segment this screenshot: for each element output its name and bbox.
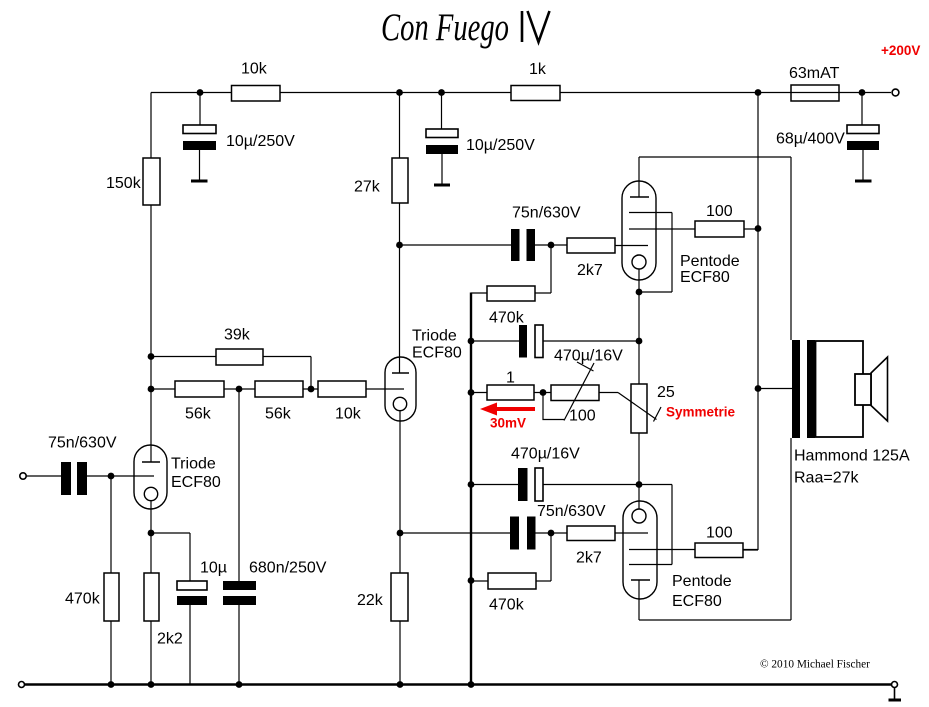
pentode V3 cathode circle bbox=[632, 255, 646, 269]
junction 1ohm / 100 pot bbox=[540, 389, 547, 396]
wire 470k lower link bbox=[471, 533, 551, 581]
pentode V3 anode bar bbox=[630, 196, 649, 198]
wire cathode chain lower bbox=[638, 433, 640, 509]
resistor 100 upper screen bbox=[695, 221, 744, 237]
wire lower g2 row bbox=[629, 549, 758, 551]
wire 27k branch upper bbox=[399, 93, 401, 159]
wire top B+ rail bbox=[151, 92, 891, 94]
junction splitter anode / coupling bbox=[396, 242, 403, 249]
junction upper pentode cathode bbox=[636, 289, 643, 296]
capacitor C4 75n/630V input bbox=[61, 462, 87, 495]
svg-text:10µ/250V: 10µ/250V bbox=[466, 137, 535, 154]
wire 2k7 to g1 upper pentode bbox=[615, 245, 648, 247]
triode V2 cathode circle bbox=[393, 397, 406, 410]
svg-text:Symmetrie: Symmetrie bbox=[666, 405, 736, 420]
svg-text:56k: 56k bbox=[185, 406, 212, 423]
svg-text:100: 100 bbox=[569, 408, 596, 425]
svg-text:75n/630V: 75n/630V bbox=[48, 435, 117, 452]
svg-text:1: 1 bbox=[506, 370, 515, 387]
terminal ground input bbox=[19, 682, 25, 688]
wire V1 cathode lead bbox=[150, 501, 152, 533]
junction rail / 2k2 bbox=[148, 681, 155, 688]
wire cap to grid V1 bbox=[87, 475, 154, 477]
wire cap C2 lead bbox=[441, 93, 444, 185]
wire splitter cathode to C8 bbox=[400, 532, 510, 534]
resistor 2k2 bbox=[144, 573, 159, 621]
capacitor C1 10u/250V bbox=[183, 125, 216, 183]
trimmer 25 wiper diagonal bbox=[618, 393, 661, 422]
junction rail / 470k input bbox=[108, 681, 115, 688]
wire 10u bypass branch bbox=[151, 533, 190, 685]
junction top rail / 68u bbox=[859, 89, 866, 96]
svg-text:25: 25 bbox=[657, 384, 675, 401]
resistor 10k top bbox=[232, 86, 281, 102]
capacitor C9 470u/16V upper bbox=[519, 325, 543, 358]
svg-text:Con Fuego: Con Fuego bbox=[381, 6, 509, 49]
svg-text:2k2: 2k2 bbox=[157, 631, 183, 648]
wire 22k branch bbox=[399, 533, 401, 685]
junction 39k tap bbox=[148, 353, 155, 360]
svg-text:39k: 39k bbox=[224, 327, 251, 344]
svg-text:ECF80: ECF80 bbox=[412, 345, 462, 362]
terminal B+ output bbox=[892, 89, 899, 96]
svg-text:ECF80: ECF80 bbox=[672, 593, 722, 610]
capacitor C2 10u/250V bbox=[426, 129, 458, 187]
svg-text:75n/630V: 75n/630V bbox=[512, 205, 581, 222]
svg-text:1k: 1k bbox=[529, 61, 547, 78]
fuse 63mAT bbox=[791, 85, 839, 101]
resistor 56k second bbox=[255, 381, 303, 397]
resistor 22k bbox=[391, 573, 408, 621]
wire lower 470u row bbox=[471, 484, 639, 486]
wire 2k7 to g1 lower pentode bbox=[615, 532, 648, 534]
resistor 2k7 upper bbox=[567, 238, 615, 253]
resistor 1k top bbox=[511, 86, 560, 101]
wire 56k row bbox=[151, 388, 404, 390]
wire upper anode to transformer bbox=[639, 157, 791, 340]
resistor 100 lower screen bbox=[695, 543, 743, 558]
svg-text:2k7: 2k7 bbox=[577, 262, 603, 279]
svg-text:63mAT: 63mAT bbox=[789, 65, 840, 82]
junction top rail / 27k bbox=[396, 89, 403, 96]
potentiometer 100 wiper arm bbox=[543, 362, 594, 421]
svg-text:10k: 10k bbox=[335, 406, 362, 423]
pentode V4 envelope bbox=[623, 501, 657, 599]
wire splitter anode to C7 bbox=[400, 244, 512, 246]
svg-text:+200V: +200V bbox=[881, 43, 920, 58]
wire B+ column bbox=[743, 93, 758, 551]
junction rail / bias bus bbox=[468, 681, 475, 688]
wire input to cap bbox=[26, 475, 61, 477]
wire upper g3 tie bbox=[629, 213, 672, 293]
junction lower 470u / trimmer bbox=[636, 481, 643, 488]
wire C7 to 2k7 upper bbox=[535, 244, 567, 246]
wire lower anode to transformer bbox=[639, 438, 791, 620]
wire upper anode lead bbox=[638, 157, 640, 197]
svg-text:Triode: Triode bbox=[171, 456, 216, 473]
junction 56k tap bbox=[148, 386, 155, 393]
wire 68u branch bbox=[862, 93, 863, 181]
svg-text:470µ/16V: 470µ/16V bbox=[554, 348, 623, 365]
svg-text:68µ/400V: 68µ/400V bbox=[776, 131, 845, 148]
junction V1 cathode node bbox=[148, 530, 155, 537]
pentode V4 anode bar bbox=[631, 579, 650, 581]
svg-text:10µ: 10µ bbox=[200, 560, 227, 577]
junction bias bus / 470k lower bbox=[468, 577, 475, 584]
svg-text:2k7: 2k7 bbox=[576, 550, 602, 567]
wire cap C1 lead bbox=[199, 93, 202, 181]
resistor 39k bbox=[216, 349, 263, 365]
junction B+ / 100 upper bbox=[755, 225, 762, 232]
title numeral IV bbox=[522, 11, 550, 42]
wire 2k2 branch bbox=[150, 533, 152, 685]
triode V1 envelope bbox=[134, 445, 167, 509]
junction top rail / C2 bbox=[438, 89, 445, 96]
capacitor C10 470u/16V lower bbox=[518, 468, 543, 501]
svg-text:470µ/16V: 470µ/16V bbox=[511, 446, 580, 463]
junction bias bus / upper 470u bbox=[468, 338, 475, 345]
junction grid / 470k bbox=[108, 473, 115, 480]
junction rail / 680n bbox=[236, 681, 243, 688]
resistor 150k bbox=[143, 158, 160, 205]
wire common bias bus bbox=[470, 293, 472, 685]
junction upper 470u / trimmer bbox=[636, 338, 643, 345]
svg-text:© 2010 Michael Fischer: © 2010 Michael Fischer bbox=[760, 659, 870, 671]
svg-text:22k: 22k bbox=[357, 592, 384, 609]
junction V2 cathode node bbox=[397, 530, 404, 537]
potentiometer 100 body bbox=[551, 385, 599, 401]
wire V2 cathode lead bbox=[399, 411, 401, 533]
junction top rail / B+ column bbox=[755, 89, 762, 96]
wire 470k input branch bbox=[110, 476, 112, 685]
svg-text:470k: 470k bbox=[489, 310, 525, 327]
svg-text:10k: 10k bbox=[241, 61, 268, 78]
svg-text:10µ/250V: 10µ/250V bbox=[226, 133, 295, 150]
junction 56k/56k 680n tap bbox=[236, 386, 243, 393]
svg-text:470k: 470k bbox=[489, 597, 525, 614]
resistor 10k second bbox=[318, 381, 366, 397]
triode V2 anode bar bbox=[392, 372, 409, 374]
wire center tap bbox=[758, 388, 792, 390]
pentode V3 envelope bbox=[622, 181, 656, 280]
capacitor C8 75n/630V lower bbox=[510, 517, 536, 550]
junction bias bus / lower 470u bbox=[468, 481, 475, 488]
capacitor C3 68u/400V bbox=[847, 125, 879, 183]
wire C8 to 2k7 lower bbox=[536, 532, 568, 534]
wire 150k to input triode anode bbox=[150, 205, 152, 462]
wire lower g3 tie bbox=[629, 485, 672, 565]
resistor 27k bbox=[392, 158, 408, 203]
capacitor C5 10u cathode bypass bbox=[177, 581, 207, 605]
capacitor C7 75n/630V upper bbox=[511, 229, 535, 261]
wire 1 ohm row bbox=[471, 392, 618, 394]
svg-text:150k: 150k bbox=[106, 175, 142, 192]
wire 150k branch upper bbox=[150, 93, 152, 159]
svg-text:Pentode: Pentode bbox=[672, 573, 732, 590]
junction upper grid node bbox=[548, 242, 555, 249]
resistor 470k input bbox=[104, 573, 119, 621]
svg-text:Pentode: Pentode bbox=[680, 253, 740, 270]
resistor R1 1 ohm bbox=[487, 385, 534, 400]
svg-text:100: 100 bbox=[706, 525, 733, 542]
resistor 56k first bbox=[175, 381, 224, 397]
speaker LS1 bbox=[855, 357, 888, 421]
wire upper g2 row bbox=[629, 228, 758, 230]
svg-text:30mV: 30mV bbox=[490, 416, 526, 431]
svg-text:ECF80: ECF80 bbox=[171, 474, 221, 491]
wire lower anode lead bbox=[638, 580, 640, 620]
svg-text:Triode: Triode bbox=[412, 328, 457, 345]
junction B+ / center tap bbox=[755, 385, 762, 392]
resistor 470k lower bbox=[488, 573, 536, 589]
pentode V4 cathode circle bbox=[632, 509, 646, 523]
svg-text:Hammond 125A: Hammond 125A bbox=[794, 448, 910, 465]
svg-text:56k: 56k bbox=[265, 406, 292, 423]
wire 27k to splitter anode bbox=[399, 203, 401, 373]
transformer T1 primary bar bbox=[792, 340, 800, 438]
junction rail / 22k bbox=[397, 681, 404, 688]
svg-text:Raa=27k: Raa=27k bbox=[794, 470, 859, 487]
wire 680n branch bbox=[238, 389, 240, 685]
svg-text:ECF80: ECF80 bbox=[680, 269, 730, 286]
svg-text:75n/630V: 75n/630V bbox=[537, 503, 606, 520]
resistor 2k7 lower bbox=[567, 526, 615, 541]
resistor 470k upper bbox=[487, 286, 535, 301]
wire upper 470u row bbox=[471, 340, 639, 342]
junction bias bus / 1 ohm bbox=[468, 389, 475, 396]
ground chassis symbol bbox=[889, 682, 902, 702]
terminal input bbox=[20, 473, 26, 479]
triode V2 envelope bbox=[385, 357, 416, 421]
junction 56k/10k 39k tap bbox=[308, 386, 315, 393]
wire cathode chain upper bbox=[638, 269, 640, 384]
wire ground rail bbox=[25, 683, 892, 685]
junction lower grid node bbox=[548, 530, 555, 537]
triode V1 cathode circle bbox=[144, 487, 157, 500]
junction top rail / C1 bbox=[197, 89, 204, 96]
trimmer 25 body bbox=[631, 384, 647, 433]
triode V1 anode bar bbox=[142, 461, 160, 463]
svg-text:27k: 27k bbox=[354, 179, 381, 196]
svg-text:100: 100 bbox=[706, 203, 733, 220]
capacitor C6 680n/250V bbox=[223, 581, 256, 605]
svg-text:470k: 470k bbox=[65, 591, 101, 608]
wire 39k row bbox=[151, 357, 311, 390]
arrow 30mV measurement bbox=[480, 403, 535, 416]
transformer T1 secondary bar bbox=[807, 340, 815, 438]
svg-text:680n/250V: 680n/250V bbox=[249, 560, 327, 577]
wire 470k upper link bbox=[471, 245, 551, 293]
transformer T1 secondary loop bbox=[816, 341, 864, 437]
